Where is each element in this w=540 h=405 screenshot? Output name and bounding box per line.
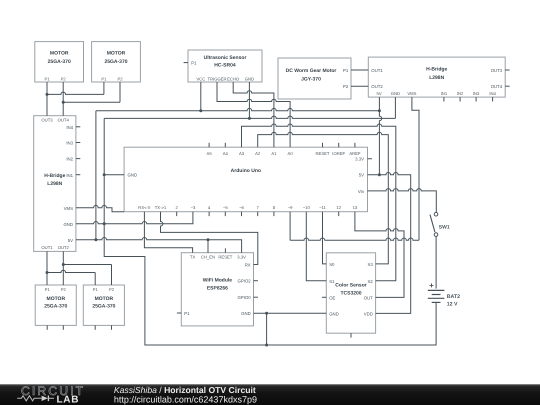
junction	[378, 173, 381, 176]
svg-text:RX<-0: RX<-0	[138, 205, 151, 210]
svg-text:BAT2: BAT2	[447, 294, 460, 300]
wire U1.ECHO to Arduino A1	[233, 82, 274, 147]
svg-text:~5: ~5	[223, 205, 228, 210]
svg-text:~9: ~9	[288, 205, 293, 210]
svg-text:AREF: AREF	[349, 151, 361, 156]
svg-text:JGY-370: JGY-370	[301, 76, 321, 82]
wire GND rail	[104, 116, 395, 118]
svg-text:S0: S0	[329, 262, 335, 267]
svg-text:13: 13	[353, 205, 358, 210]
svg-text:CH_EN: CH_EN	[201, 255, 215, 260]
svg-text:P2: P2	[61, 287, 67, 292]
svg-text:IN2: IN2	[66, 157, 73, 162]
svg-text:P2: P2	[61, 77, 67, 82]
svg-text:OUT4: OUT4	[491, 84, 503, 89]
wire U3.VMS row	[76, 205, 124, 211]
svg-text:GND: GND	[245, 77, 254, 82]
svg-text:A3: A3	[239, 151, 245, 156]
svg-text:ECHO: ECHO	[227, 77, 240, 82]
svg-text:Arduino Uno: Arduino Uno	[231, 168, 261, 174]
svg-text:P1: P1	[93, 287, 99, 292]
svg-text:5V: 5V	[377, 91, 382, 96]
svg-text:OUT2: OUT2	[58, 245, 70, 250]
svg-text:DC Worm Gear Motor: DC Worm Gear Motor	[286, 68, 337, 74]
wire Arduino ~10 to U6.S1	[306, 212, 326, 281]
junction	[265, 344, 268, 347]
svg-text:GPIO2: GPIO2	[238, 279, 252, 284]
svg-text:HC-SR04: HC-SR04	[214, 63, 236, 69]
svg-text:L298N: L298N	[429, 75, 444, 81]
svg-text:MOTOR: MOTOR	[47, 296, 66, 302]
wire M5.P1 to U2.OUT1	[351, 69, 368, 71]
wire M2.P1 drop	[103, 82, 105, 94]
wire U3.GND row to Arduino ~3	[76, 212, 193, 224]
junction	[207, 238, 210, 241]
junction	[103, 173, 106, 176]
svg-text:http://circuitlab.com/c62437kd: http://circuitlab.com/c62437kdxs7p9	[114, 394, 257, 404]
svg-text:VMS: VMS	[407, 91, 416, 96]
svg-text:A5: A5	[207, 151, 213, 156]
svg-text:IOREF: IOREF	[332, 151, 345, 156]
wire M1.P2 to U3.OUT4	[62, 82, 64, 116]
svg-text:RESET: RESET	[218, 255, 232, 260]
svg-text:~10: ~10	[303, 205, 311, 210]
svg-text:~3: ~3	[191, 205, 196, 210]
svg-text:RX: RX	[245, 262, 251, 267]
wire Arduino A3 to U6.S2	[242, 124, 396, 281]
svg-text:GND: GND	[128, 173, 138, 178]
junction	[103, 222, 106, 225]
svg-text:25GA-370: 25GA-370	[104, 59, 127, 65]
svg-text:OUT1: OUT1	[371, 68, 383, 73]
svg-text:25GA-370: 25GA-370	[48, 59, 71, 65]
svg-text:5V: 5V	[68, 238, 73, 243]
wire node to M4.P2	[63, 264, 111, 266]
wire node to M4.P1	[47, 270, 95, 272]
svg-text:S2: S2	[368, 279, 374, 284]
wire Arduino 5V to U6.VDD	[368, 172, 411, 313]
wire Arduino A2 to U6.S3	[258, 132, 389, 264]
svg-text:A2: A2	[255, 151, 261, 156]
svg-text:Ultrasonic Sensor: Ultrasonic Sensor	[204, 55, 247, 61]
svg-text:VDD: VDD	[364, 311, 373, 316]
svg-text:S3: S3	[368, 262, 374, 267]
svg-text:H-Bridge: H-Bridge	[426, 67, 447, 73]
wire U3.5V row to WiFi 3.3V	[76, 238, 242, 253]
junction	[378, 109, 381, 112]
svg-text:P2: P2	[109, 287, 115, 292]
wire U1.TRIGGER to Arduino A0	[217, 82, 290, 147]
battery BAT2 12V	[428, 283, 460, 307]
wire M1.P1 to U3.OUT3	[46, 82, 48, 116]
svg-text:~11: ~11	[319, 205, 326, 210]
svg-text:P1: P1	[44, 77, 50, 82]
svg-text:IN3: IN3	[66, 141, 73, 146]
svg-text:A1: A1	[271, 151, 277, 156]
svg-text:P1: P1	[45, 287, 51, 292]
wire U3.OUT2 to M3.P2	[62, 251, 64, 285]
svg-text:TX->1: TX->1	[155, 205, 167, 210]
wire SW1 to BAT2 plus	[435, 236, 437, 288]
motor M4 (25GA-370)	[83, 285, 124, 330]
svg-text:GPIO0: GPIO0	[238, 295, 252, 300]
motor M2 (25GA-370)	[92, 42, 141, 82]
wire Arduino Vin to SW1	[368, 189, 437, 213]
svg-text:OUT: OUT	[364, 295, 373, 300]
svg-text:Vin: Vin	[358, 189, 365, 194]
wire Arduino 13 to U6.OUT	[355, 212, 404, 298]
svg-text:GND: GND	[241, 311, 251, 316]
wire Arduino ~11 to U6.S0	[323, 212, 327, 264]
svg-text:Color Sensor: Color Sensor	[335, 283, 366, 289]
svg-text:12 V: 12 V	[447, 301, 458, 307]
H-bridge U3 L298N (left)	[34, 116, 81, 252]
svg-text:P2: P2	[343, 84, 349, 89]
svg-text:OUT2: OUT2	[371, 84, 383, 89]
DC worm gear motor M5 (JGY-370)	[278, 58, 351, 99]
svg-text:IN4: IN4	[66, 125, 73, 130]
wire Arduino RX to WiFi TX	[144, 212, 192, 253]
junction	[199, 109, 202, 112]
svg-text:P1: P1	[343, 68, 349, 73]
svg-text:IN1: IN1	[441, 91, 448, 96]
svg-text:VMS: VMS	[64, 206, 73, 211]
motor M1 (25GA-370)	[35, 42, 84, 82]
svg-text:TX: TX	[190, 255, 196, 260]
svg-text:VCC: VCC	[196, 77, 205, 82]
svg-text:IN4: IN4	[489, 91, 496, 96]
svg-text:A0: A0	[288, 151, 294, 156]
wire branch to WiFi CH_EN	[207, 240, 209, 253]
svg-text:GND: GND	[63, 222, 73, 227]
svg-text:P2: P2	[117, 77, 123, 82]
svg-text:GND: GND	[329, 311, 339, 316]
svg-text:TCS3200: TCS3200	[340, 290, 361, 296]
junction	[62, 263, 65, 266]
svg-text:OUT3: OUT3	[491, 68, 503, 73]
svg-text:OUT1: OUT1	[41, 245, 53, 250]
svg-text:OE: OE	[329, 295, 335, 300]
svg-text:LAB: LAB	[57, 394, 80, 405]
svg-text:P1: P1	[191, 61, 197, 66]
wire Arduino ~9 drop	[289, 212, 291, 241]
switch SW1	[430, 212, 450, 236]
svg-text:MOTOR: MOTOR	[107, 51, 126, 57]
motor M3 (25GA-370)	[35, 285, 76, 330]
H-bridge U2 L298N (top right)	[368, 57, 509, 101]
svg-text:RESET: RESET	[316, 151, 330, 156]
WiFi module U5 ESP8266	[177, 248, 258, 326]
svg-text:5V: 5V	[359, 173, 364, 178]
wire WiFi GND to U6.GND	[254, 312, 327, 314]
wire M4.P1 drop	[94, 273, 96, 286]
wire Arduino TX to WiFi RX	[161, 212, 258, 265]
svg-text:ESP8266: ESP8266	[207, 285, 228, 291]
wire U2.VMS down	[412, 97, 419, 240]
svg-text:25GA-370: 25GA-370	[92, 304, 115, 310]
color sensor U6 TCS3200	[322, 253, 376, 338]
svg-text:~6: ~6	[239, 205, 244, 210]
wire U3.OUT1 to M3.P1	[46, 251, 48, 285]
junction	[265, 312, 268, 315]
wire GND net to BAT2 minus	[104, 118, 436, 345]
svg-text:GND: GND	[391, 91, 400, 96]
svg-text:P1: P1	[184, 311, 190, 316]
svg-text:L298N: L298N	[47, 181, 62, 187]
wire M2.P2 drop	[119, 82, 121, 102]
svg-text:OUT4: OUT4	[58, 118, 70, 123]
Arduino Uno U4	[124, 143, 372, 216]
footer credit text	[114, 385, 257, 404]
svg-text:H-Bridge: H-Bridge	[44, 173, 65, 179]
svg-text:TRIGGER: TRIGGER	[207, 77, 226, 82]
junction	[46, 93, 49, 96]
svg-text:SW1: SW1	[439, 224, 450, 230]
junction	[94, 238, 97, 241]
svg-text:MOTOR: MOTOR	[95, 296, 114, 302]
wire GND drop to bottom rail	[266, 313, 268, 345]
ultrasonic sensor U1 HC-SR04	[184, 50, 262, 82]
svg-text:WiFi Module: WiFi Module	[203, 278, 233, 284]
wire U1.VCC to 5V rail	[200, 82, 202, 111]
svg-text:P1: P1	[101, 77, 107, 82]
svg-text:IN2: IN2	[457, 91, 464, 96]
wire M5.P2 to U2.OUT2	[351, 85, 368, 87]
svg-text:IN3: IN3	[473, 91, 480, 96]
CircuitLab logo	[17, 384, 85, 405]
svg-text:25GA-370: 25GA-370	[44, 304, 67, 310]
svg-text:A4: A4	[223, 151, 229, 156]
wire U2.5V to Arduino 5V	[379, 97, 381, 175]
svg-text:IN1: IN1	[66, 173, 73, 178]
wire node to M2.P2	[63, 101, 120, 103]
wire M4.P2 drop	[111, 265, 113, 286]
wire 5V net left drop	[95, 111, 97, 240]
wire node to M2.P1	[47, 92, 104, 94]
svg-text:3.3V: 3.3V	[237, 255, 246, 260]
junction	[248, 117, 251, 120]
svg-text:MOTOR: MOTOR	[50, 51, 69, 57]
wire Arduino GND to GND net	[104, 174, 124, 176]
wire 5V rail	[96, 108, 380, 110]
svg-text:12: 12	[336, 205, 341, 210]
wire U2.GND drop	[394, 97, 396, 118]
wire VMS row to pin ~9	[290, 238, 419, 240]
junction	[62, 101, 65, 104]
svg-text:3.3V: 3.3V	[355, 157, 364, 162]
wire U1.GND to GND rail	[248, 82, 250, 118]
svg-text:OUT3: OUT3	[41, 118, 53, 123]
junction	[46, 271, 49, 274]
CircuitLab footer bar	[0, 384, 540, 405]
svg-text:S1: S1	[329, 279, 335, 284]
